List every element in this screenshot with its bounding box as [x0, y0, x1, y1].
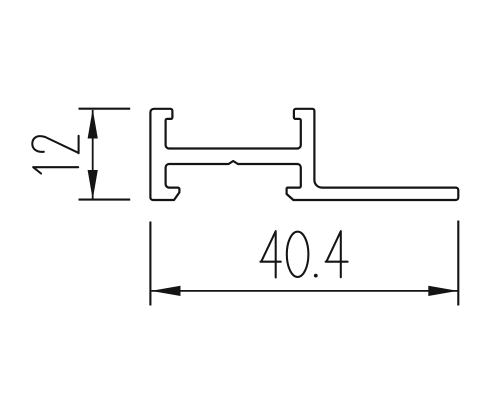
extension line top (vertical dim 12): [79, 108, 131, 110]
arrowhead left: [151, 286, 181, 296]
dimension text 40.4: [260, 231, 347, 277]
arrowhead up: [88, 109, 98, 139]
arrowhead down: [88, 170, 98, 200]
extension line bottom (vertical dim 12): [79, 199, 131, 201]
arrowhead right: [428, 286, 458, 296]
horizontal dimension line: [152, 290, 458, 292]
extension line left (horizontal dim 40.4): [149, 222, 151, 306]
decimal point: [314, 274, 318, 278]
vertical dimension line: [92, 110, 94, 199]
aluminum profile outline: [150, 109, 458, 200]
dimension text 12 (rotated): [32, 136, 78, 174]
extension line right (horizontal dim 40.4): [457, 221, 459, 306]
